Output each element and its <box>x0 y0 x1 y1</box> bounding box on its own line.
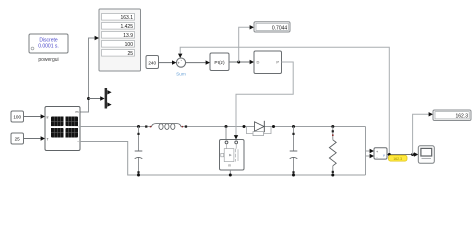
powergui block <box>29 34 68 63</box>
svg-text:powergui: powergui <box>38 57 58 63</box>
node cap2 bottom <box>292 174 295 177</box>
svg-text:D: D <box>257 60 260 65</box>
scope block <box>418 146 434 164</box>
svg-text:25: 25 <box>127 51 133 57</box>
svg-text:P: P <box>276 60 279 65</box>
white star between panels <box>60 123 69 132</box>
wire m-port to Display5 <box>80 36 99 112</box>
wire node to demux <box>89 96 105 100</box>
wire PWM P to mosfet gate <box>234 62 293 140</box>
node on m wire <box>87 97 90 100</box>
node feedback branch <box>388 153 391 156</box>
svg-text:Sum: Sum <box>176 71 186 77</box>
node mosfet drain <box>225 125 228 128</box>
node PI output branch <box>237 61 240 64</box>
wire Sum to PI <box>186 60 210 64</box>
svg-text:100: 100 <box>125 42 134 48</box>
display Display5 (5 values) <box>99 9 141 71</box>
MOSFET block Q1 <box>220 127 245 176</box>
panel icon (2x2 dark modules) <box>51 117 78 138</box>
wire bottom rail up to measurement - <box>366 156 370 175</box>
feedback wire (Vout to Sum) <box>178 47 389 154</box>
capacitor C1 (input) <box>135 127 143 176</box>
svg-text:162.3: 162.3 <box>455 114 468 120</box>
constant 240 <box>146 56 159 69</box>
resistor R load <box>329 127 336 176</box>
svg-text:v: v <box>383 153 385 157</box>
node cap1 bottom <box>137 174 140 177</box>
node resistor bottom <box>331 174 334 177</box>
svg-text:0.7044: 0.7044 <box>272 25 288 31</box>
wire 25 to T <box>24 136 46 140</box>
display 162.3 <box>433 110 471 121</box>
svg-text:13.9: 13.9 <box>123 33 133 39</box>
wire 240 to Sum <box>159 60 177 64</box>
node scope branch <box>411 153 414 156</box>
svg-text:1.425: 1.425 <box>120 24 133 30</box>
wire branch to display 162.3 <box>413 112 433 154</box>
PWM generator block <box>254 51 282 74</box>
wire branch to display 0.7044 <box>239 25 254 62</box>
svg-text:m: m <box>228 164 231 168</box>
svg-text:163.1: 163.1 <box>120 15 133 21</box>
wire measurement output <box>387 154 414 156</box>
wire PI to PWM <box>229 60 254 64</box>
wire 100 to Ir <box>24 114 46 118</box>
svg-text:25: 25 <box>15 136 21 141</box>
signal label tag (yellow) <box>389 155 408 161</box>
wire rail down to measurement + <box>366 127 370 152</box>
top rail (+ side) <box>80 126 152 128</box>
capacitor C2 (output) <box>290 127 298 176</box>
svg-text:m: m <box>76 110 79 114</box>
svg-text:240: 240 <box>148 60 156 65</box>
wire PV minus route <box>80 142 139 176</box>
node mosfet source <box>229 174 232 177</box>
svg-text:0.0001 s.: 0.0001 s. <box>38 44 59 50</box>
node resistor top <box>331 125 334 128</box>
constant 25 <box>11 133 24 144</box>
demux <box>105 88 112 109</box>
inductor L <box>145 124 187 130</box>
node cap2 top <box>292 125 295 128</box>
arrow into scope <box>414 152 418 156</box>
display 0.7044 <box>254 22 290 32</box>
sum block <box>176 57 186 77</box>
svg-text:100: 100 <box>13 114 21 119</box>
svg-text:162.3: 162.3 <box>393 157 402 161</box>
PI(z) controller block <box>210 53 229 71</box>
diode D1 <box>243 121 276 136</box>
svg-text:PI(z): PI(z) <box>214 60 225 66</box>
voltage measurement block <box>374 148 387 160</box>
bottom rail <box>139 174 366 176</box>
node cap1 top <box>137 125 140 128</box>
PV array block <box>45 107 80 151</box>
constant 100 <box>11 111 24 122</box>
